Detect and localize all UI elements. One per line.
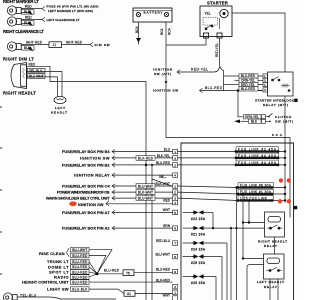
relay starter interlock	[268, 72, 294, 96]
wire relay2 lower pin curve from below	[247, 265, 264, 300]
junction dot	[237, 89, 240, 92]
svg-text:ORN-YEL: ORN-YEL	[245, 115, 259, 119]
wire relay feed down to fuse box	[284, 96, 286, 203]
value BLU-WHT boxed	[136, 196, 155, 201]
value BLU-RED boxed	[71, 253, 90, 258]
wire fuse25 drop	[221, 257, 223, 300]
wire ORN-YEL to clutch	[238, 91, 244, 117]
svg-text:RIGHT DIM LT: RIGHT DIM LT	[3, 57, 34, 62]
svg-text:H2: H2	[160, 174, 164, 178]
pin 3	[263, 78, 267, 82]
pin cb	[173, 190, 178, 195]
pin 4 ignition relay	[173, 173, 178, 178]
svg-text:RED-YEL: RED-YEL	[215, 43, 219, 57]
wire T6 to pin	[134, 272, 173, 274]
svg-text:RED-BLU: RED-BLU	[156, 239, 171, 243]
fusible link FL2 45A	[236, 147, 279, 152]
clutch sw pins	[262, 115, 266, 124]
fusible link FL8 30A	[238, 183, 274, 188]
junction T6	[123, 270, 134, 276]
lamp left headlt	[54, 96, 66, 103]
node arrow	[177, 70, 180, 74]
svg-text:RIGHT HEADLT: RIGHT HEADLT	[3, 91, 36, 96]
svg-text:#21 20A: #21 20A	[191, 233, 206, 237]
svg-text:BLU-RED: BLU-RED	[72, 270, 88, 274]
svg-text:STARTER: STARTER	[207, 1, 228, 6]
value BLK boxed	[21, 10, 34, 15]
svg-text:FUSE/RELAY BOX PIN B4: FUSE/RELAY BOX PIN B4	[62, 149, 110, 154]
fuse #24 15A	[183, 242, 196, 244]
wire BLU-RED ignition to relay pin4	[200, 90, 263, 92]
svg-text:YEL-BLU: YEL-BLU	[29, 69, 43, 73]
marker red dot c	[278, 199, 282, 203]
wire pin B4	[112, 151, 173, 153]
connector bottom left	[3, 293, 17, 300]
svg-text:BLU-RED: BLU-RED	[156, 161, 171, 165]
svg-text:LEFT CLEARANCE LT: LEFT CLEARANCE LT	[47, 18, 80, 22]
svg-text:LEFT HEADLT: LEFT HEADLT	[257, 280, 284, 284]
svg-text:IGNITION: IGNITION	[153, 68, 173, 72]
wire ignition relay	[112, 174, 173, 176]
page marker	[294, 99, 297, 102]
svg-text:CLUTCH: CLUTCH	[275, 115, 292, 119]
svg-text:IGNITION SW: IGNITION SW	[80, 155, 110, 160]
value YEL-BLU boxed	[28, 68, 46, 73]
svg-text:BLU-BLK: BLU-BLK	[72, 288, 88, 292]
battery B1	[133, 8, 172, 22]
fusible link 1.25	[238, 196, 274, 201]
ground arrow (BLK, right marker)	[27, 10, 33, 15]
wire pins to links2	[178, 186, 239, 201]
svg-text:HEIGHT CONTROL UNIT: HEIGHT CONTROL UNIT	[22, 280, 69, 285]
ground arrow (BLK, clearance)	[27, 21, 33, 26]
svg-text:LIGHT SW: LIGHT SW	[47, 287, 69, 292]
svg-text:WHT-RED: WHT-RED	[66, 40, 83, 44]
value ORN-YEL boxed	[244, 115, 262, 119]
svg-text:BLU-RED: BLU-RED	[205, 86, 223, 90]
svg-text:RED: RED	[163, 199, 170, 203]
wire fuse24 drop	[226, 243, 228, 300]
node arrow	[90, 42, 93, 46]
value BLK-WHT boxed	[136, 190, 155, 195]
wire WHT-RED to J1	[21, 44, 49, 46]
fuse #22 15A	[183, 211, 196, 213]
node arrow	[200, 88, 203, 92]
value RED-YEL boxed	[239, 82, 258, 86]
svg-text:BLU-RED: BLU-RED	[156, 267, 171, 271]
svg-text:RED-YEL: RED-YEL	[191, 68, 208, 72]
svg-text:LEFT MARKER LT (W/O ABS): LEFT MARKER LT (W/O ABS)	[48, 9, 93, 13]
svg-text:A1: A1	[127, 292, 131, 296]
value BLU-RED boxed	[71, 270, 90, 275]
connector right marker lt	[7, 6, 21, 15]
node fork arrow	[42, 6, 45, 11]
svg-text:BLU-RED: BLU-RED	[72, 281, 88, 285]
page marker 2	[294, 206, 297, 209]
fuse/relay box	[181, 143, 294, 300]
svg-text:YEL: YEL	[205, 11, 211, 15]
fuse #21 20A	[183, 227, 196, 229]
svg-text:BLK-YEL: BLK-YEL	[157, 154, 170, 158]
wire taps to relay pins	[224, 75, 240, 77]
node IGNITION SW (highlight)	[69, 201, 77, 206]
marker red dot b	[287, 178, 291, 182]
svg-text:LEFT: LEFT	[55, 106, 65, 110]
wire bar1 drop down	[236, 188, 238, 300]
junction trunk to B2 row	[145, 164, 148, 167]
svg-text:FUSE/RELAY BOX PIN B2: FUSE/RELAY BOX PIN B2	[62, 162, 110, 167]
pin warn	[173, 196, 178, 201]
page edge marks	[0, 107, 2, 274]
wire yel-blu bottom	[17, 297, 116, 299]
svg-text:RED: RED	[29, 62, 36, 66]
ground arrow (BLK, dim)	[28, 47, 34, 52]
svg-text:FUSE #8 (F/R PIN LT) (W/ ABS): FUSE #8 (F/R PIN LT) (W/ ABS)	[47, 4, 99, 8]
svg-text:FUSE/RELAY BOX PIN A7: FUSE/RELAY BOX PIN A7	[62, 210, 110, 215]
wire battery negative	[138, 22, 140, 38]
svg-text:J1: J1	[53, 43, 57, 47]
svg-text:BLK-WHT: BLK-WHT	[138, 191, 153, 195]
fuse #26 15A	[183, 276, 196, 278]
wire starter feed to right edge	[232, 13, 285, 72]
svg-text:IGNITION SW: IGNITION SW	[153, 89, 178, 93]
wire bar3 drop to relay1 top pin	[243, 201, 265, 223]
svg-text:SW (M/T): SW (M/T)	[275, 120, 293, 124]
svg-text:BLU-WHT: BLU-WHT	[138, 184, 153, 188]
wire RED-YEL ignition to starter junction	[177, 67, 220, 72]
svg-text:BLK: BLK	[251, 120, 258, 124]
fuse #25 15A	[183, 256, 196, 258]
value BLU-RED boxed	[71, 280, 90, 285]
svg-text:HEADLT: HEADLT	[51, 111, 67, 115]
wire fuse22 to relay1 top	[212, 212, 214, 228]
starter M1	[200, 6, 232, 38]
svg-text:FUSE/RELAY BOX PIN A2: FUSE/RELAY BOX PIN A2	[62, 226, 110, 231]
wires bundle converge	[89, 250, 173, 283]
fusible link FL4b 40A	[236, 160, 279, 165]
value BLU-RED boxed	[71, 259, 90, 264]
wire RED feed to trunk	[27, 66, 146, 300]
wire relay returns	[270, 237, 278, 300]
svg-text:#22 15A: #22 15A	[191, 217, 206, 221]
value BLU-RED boxed	[239, 74, 258, 78]
wire pin1 to link	[178, 152, 236, 165]
wires links2 to feed	[272, 188, 285, 201]
wire RED to left clearance	[21, 19, 42, 21]
svg-text:BLK-WHT: BLK-WHT	[156, 182, 170, 186]
svg-text:BLK-RED: BLK-RED	[138, 156, 154, 160]
junction A1	[124, 291, 135, 297]
wire battery feed lower stub	[166, 45, 290, 218]
wire fuse26 drop	[215, 277, 217, 300]
marker red dot d	[287, 199, 291, 203]
svg-text:BLK-RED: BLK-RED	[156, 278, 171, 282]
junction bundle	[96, 272, 99, 275]
wire to relay1 lower pin and bottom drop	[213, 228, 265, 300]
svg-text:BLU-RED: BLU-RED	[72, 265, 88, 269]
wire pin B2	[112, 164, 173, 166]
ground battery	[136, 38, 141, 43]
relay right headlt	[265, 212, 285, 237]
value BLK boxed	[21, 46, 34, 51]
wire H2 drop	[152, 165, 173, 300]
value BLK boxed	[249, 119, 262, 123]
wire starter solenoid RED-YEL down	[220, 38, 224, 91]
svg-text:BLU-RED: BLU-RED	[72, 254, 88, 258]
svg-text:BLU-RED: BLU-RED	[72, 275, 88, 279]
svg-text:RELAY (M/T): RELAY (M/T)	[263, 103, 288, 107]
wire ign sw to pin	[112, 157, 173, 159]
value BLU-WHT boxed	[28, 74, 46, 79]
svg-text:RELAY: RELAY	[264, 244, 278, 248]
value BLU-RED boxed	[71, 275, 90, 280]
svg-text:DIM SW: DIM SW	[95, 43, 110, 47]
relay left headlt	[264, 254, 285, 279]
wire RED to fuse8	[21, 8, 42, 10]
svg-text:SW (A/T): SW (A/T)	[154, 72, 171, 76]
marker red dot a	[279, 178, 283, 182]
svg-text:FUSE/RELAY BOX PIN C4: FUSE/RELAY BOX PIN C4	[62, 184, 110, 189]
wire WHT-RED to dim sw	[62, 44, 91, 46]
svg-text:BLU-RED: BLU-RED	[241, 87, 256, 91]
value BLU-RED boxed	[239, 87, 258, 91]
value BLU-BLK boxed	[71, 287, 90, 292]
pin 4	[263, 88, 267, 92]
value BLU-WHT boxed	[71, 247, 90, 252]
value BLK-RED boxed	[136, 156, 155, 161]
wire YEL-BLU to left headlt	[27, 72, 62, 97]
svg-text:RCA: RCA	[167, 27, 171, 35]
wire BLK stub	[21, 12, 27, 14]
value BLK boxed	[21, 21, 34, 26]
svg-text:BLU-RED: BLU-RED	[72, 260, 88, 264]
value ORN-YEL boxed	[239, 78, 258, 82]
svg-text:RELAY: RELAY	[264, 285, 278, 289]
wire light sw to A1	[89, 289, 124, 293]
fusible link FL1 30A	[238, 189, 274, 194]
pin 1	[263, 83, 267, 87]
svg-text:WHT: WHT	[163, 294, 170, 298]
svg-text:RIGHT HEADLT: RIGHT HEADLT	[258, 240, 287, 244]
wire BLU-WHT to left headlt	[27, 77, 58, 96]
svg-text:STARTER INTERLOCK: STARTER INTERLOCK	[255, 98, 295, 102]
svg-text:BLU-WHT: BLU-WHT	[29, 74, 44, 78]
svg-text:BLU-WHT: BLU-WHT	[138, 197, 153, 201]
pin BLU-BLK	[173, 290, 178, 295]
svg-text:#25 15A: #25 15A	[191, 261, 206, 265]
svg-text:POWER WINDOW/SUNROOF CB: POWER WINDOW/SUNROOF CB	[57, 190, 110, 195]
svg-text:BLU-WHT: BLU-WHT	[72, 248, 87, 252]
connector right dim lt	[7, 42, 21, 51]
svg-text:RED: RED	[25, 16, 32, 20]
value BLU-RED boxed	[71, 265, 90, 270]
wire BLK stub + arrow	[241, 120, 249, 122]
wire A1 to pin	[135, 293, 173, 295]
fusible link FL4 40A	[236, 153, 279, 158]
svg-text:BATTERY: BATTERY	[144, 10, 164, 14]
wire battery to starter	[166, 37, 206, 45]
connector left clearance lt	[7, 17, 21, 26]
pin 2	[263, 74, 267, 78]
wires boxes to pins	[258, 76, 263, 91]
svg-text:WARN SHOULDER BELT CTRL UNIT: WARN SHOULDER BELT CTRL UNIT	[46, 196, 110, 201]
svg-text:#24 15A: #24 15A	[191, 247, 206, 251]
wire bar2 drop to relay2	[243, 194, 264, 259]
svg-text:T6: T6	[126, 271, 130, 275]
junction J1	[49, 42, 62, 48]
svg-text:BLU-RED: BLU-RED	[104, 269, 120, 273]
wires links to feed trunk	[278, 152, 285, 165]
wire battery positive down	[165, 22, 167, 45]
svg-text:RISE CLEAN: RISE CLEAN	[39, 251, 65, 256]
lamp right headlt sealed beam	[11, 63, 27, 89]
svg-text:IGNITION RELAY: IGNITION RELAY	[74, 173, 110, 178]
svg-text:RIGHT CLEARANCE LT: RIGHT CLEARANCE LT	[3, 29, 44, 34]
svg-text:BLU: BLU	[164, 148, 171, 152]
value BLU-WHT boxed	[136, 184, 155, 189]
svg-text:WHT: WHT	[163, 208, 170, 212]
wire bundle to T6	[97, 273, 123, 275]
svg-text:RED: RED	[25, 5, 32, 9]
svg-text:WHT-RED: WHT-RED	[26, 40, 43, 44]
svg-text:IGNITION SW: IGNITION SW	[78, 202, 104, 207]
wire BLK stub	[21, 23, 27, 25]
svg-text:BLU-WHT: BLU-WHT	[155, 252, 170, 256]
svg-text:BCA: BCA	[135, 26, 139, 33]
svg-text:RIGHT MARKER LT: RIGHT MARKER LT	[3, 0, 39, 4]
svg-text:6CA: 6CA	[272, 133, 283, 137]
svg-text:BRN: BRN	[163, 224, 170, 228]
svg-text:#26 15A: #26 15A	[191, 281, 206, 285]
switch clutch	[266, 113, 273, 121]
node arrow	[42, 17, 45, 21]
svg-text:BCA: BCA	[160, 28, 164, 35]
